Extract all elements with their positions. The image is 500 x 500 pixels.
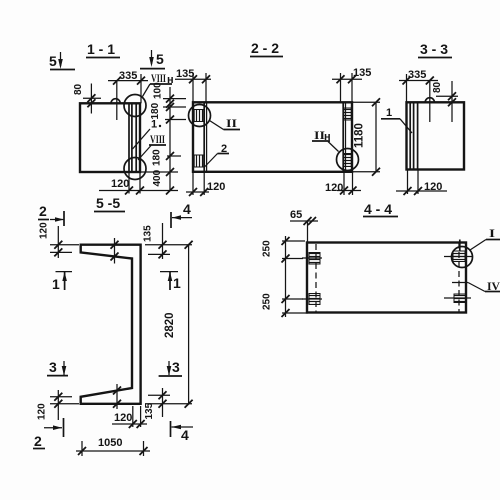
embedded plate right top bbox=[444, 256, 472, 258]
dim 2820 right bbox=[188, 245, 190, 404]
dim 80 left bbox=[90, 84, 92, 114]
svg-text:135: 135 bbox=[176, 68, 194, 80]
dim 335 top bbox=[399, 80, 438, 82]
svg-text:400: 400 bbox=[152, 169, 163, 186]
svg-text:VIII: VIII bbox=[150, 132, 165, 146]
dim 120 bottom bbox=[396, 190, 447, 192]
callout circle left top bbox=[189, 105, 211, 127]
svg-text:1: 1 bbox=[151, 119, 157, 131]
svg-text:3 - 3: 3 - 3 bbox=[420, 41, 448, 57]
dim 1180 right bbox=[352, 101, 380, 103]
embedded plate left top bbox=[302, 257, 322, 259]
svg-text:180: 180 bbox=[150, 102, 161, 119]
dim 120 top left bbox=[57, 226, 59, 258]
panel outline 2-2 bbox=[193, 102, 352, 172]
dim 135 top left bbox=[175, 78, 211, 80]
bolt axis dashed left bbox=[315, 244, 317, 313]
dim 80 right bbox=[451, 81, 453, 122]
dim 250 left bottom bbox=[282, 298, 303, 300]
svg-text:I: I bbox=[489, 226, 495, 240]
panel outline 1-1 bbox=[80, 103, 140, 172]
lifting hook bbox=[425, 98, 434, 103]
embedded plate left top bbox=[194, 110, 204, 122]
svg-text:4 - 4: 4 - 4 bbox=[364, 201, 392, 217]
svg-text:135: 135 bbox=[144, 402, 155, 419]
svg-text:2820: 2820 bbox=[164, 312, 176, 338]
svg-text:335: 335 bbox=[119, 70, 137, 82]
svg-text:120: 120 bbox=[424, 181, 442, 193]
dim 335 top bbox=[108, 80, 148, 82]
svg-text:335: 335 bbox=[408, 69, 426, 81]
svg-text:4: 4 bbox=[181, 427, 189, 443]
callout circle right top bbox=[452, 247, 473, 268]
svg-text:5: 5 bbox=[156, 51, 164, 67]
svg-text:250: 250 bbox=[262, 293, 273, 310]
section 4-4 bbox=[262, 201, 500, 317]
callout circle bottom bbox=[124, 158, 146, 180]
svg-text:120: 120 bbox=[37, 403, 48, 420]
svg-text:3: 3 bbox=[172, 359, 180, 375]
section 5-5 bbox=[33, 195, 193, 456]
svg-text:1180: 1180 bbox=[354, 123, 366, 148]
channel profile outline bbox=[81, 245, 141, 404]
svg-text:3: 3 bbox=[49, 359, 57, 375]
lifting hook bbox=[111, 99, 120, 104]
dim 120 bottom right bbox=[337, 190, 361, 192]
svg-text:180: 180 bbox=[152, 149, 163, 166]
svg-text:65: 65 bbox=[290, 209, 302, 221]
embedded plate right bottom bbox=[444, 297, 471, 299]
svg-text:VIII: VIII bbox=[151, 71, 166, 85]
callout circle top bbox=[124, 95, 146, 117]
section 1-1 bbox=[49, 41, 186, 195]
svg-text:250: 250 bbox=[262, 240, 273, 257]
svg-text:1: 1 bbox=[386, 107, 392, 119]
dim 120 bottom left bbox=[57, 390, 59, 420]
svg-text:5 -5: 5 -5 bbox=[96, 195, 120, 211]
svg-text:135: 135 bbox=[143, 225, 154, 242]
dim 120 bottom left bbox=[186, 191, 209, 193]
svg-text:1: 1 bbox=[173, 275, 181, 291]
svg-text:120: 120 bbox=[111, 178, 129, 190]
svg-text:1050: 1050 bbox=[98, 437, 122, 449]
embedded plate left bottom bbox=[194, 155, 204, 167]
svg-text:120: 120 bbox=[39, 222, 50, 239]
callout circle right bottom bbox=[337, 149, 359, 171]
dim 120 bottom web bbox=[112, 423, 147, 425]
svg-text:120: 120 bbox=[325, 182, 343, 194]
embedded channel strip bbox=[128, 103, 130, 172]
svg-text:1 - 1: 1 - 1 bbox=[87, 41, 115, 57]
svg-text:1: 1 bbox=[52, 276, 60, 292]
dim 135 top right bbox=[162, 223, 164, 259]
svg-text:2 - 2: 2 - 2 bbox=[251, 40, 279, 56]
svg-text:2: 2 bbox=[39, 203, 47, 219]
panel outline 4-4 bbox=[307, 243, 466, 313]
hook position mark top bbox=[114, 238, 116, 264]
svg-text:80: 80 bbox=[432, 81, 443, 93]
bolt axis dashed right bbox=[458, 243, 460, 313]
svg-text:2: 2 bbox=[34, 433, 42, 449]
panel outline 3-3 bbox=[407, 102, 465, 169]
svg-text:120: 120 bbox=[114, 412, 132, 424]
section 2-2 bbox=[175, 40, 380, 196]
svg-text:120: 120 bbox=[207, 181, 225, 193]
embedded channel strip bbox=[417, 102, 419, 169]
right channel band bbox=[342, 102, 344, 172]
right dim stack line bbox=[169, 87, 171, 191]
embedded plate right top bbox=[344, 108, 352, 120]
svg-text:4: 4 bbox=[183, 201, 191, 217]
svg-text:80: 80 bbox=[73, 83, 84, 95]
embedded plate left bottom bbox=[302, 298, 322, 300]
hook position mark bottom bbox=[116, 384, 118, 409]
dim 250 left top bbox=[285, 236, 287, 317]
embedded plate right bottom bbox=[344, 154, 352, 167]
dim 1050 bottom bbox=[76, 450, 150, 452]
svg-text:II: II bbox=[226, 116, 237, 130]
left channel band bbox=[203, 102, 205, 172]
dim 135 bottom right bbox=[162, 388, 164, 417]
dim 120 bottom bbox=[99, 190, 178, 192]
svg-text:5: 5 bbox=[49, 53, 57, 69]
svg-text:135: 135 bbox=[353, 67, 371, 79]
dim 135 top right bbox=[332, 78, 362, 80]
section 3-3 bbox=[381, 41, 464, 195]
